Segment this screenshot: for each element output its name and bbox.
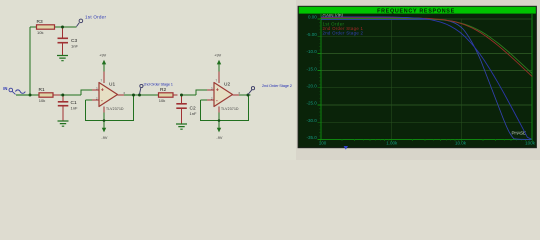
svg-text:1.00k: 1.00k — [386, 141, 398, 146]
svg-text:-: - — [216, 98, 218, 104]
svg-text:-: - — [101, 98, 103, 104]
svg-text:+: + — [216, 88, 219, 94]
svg-text:R3: R3 — [37, 19, 43, 25]
svg-text:-9V: -9V — [101, 136, 107, 140]
svg-text:100: 100 — [319, 141, 327, 146]
svg-text:1nF: 1nF — [71, 105, 78, 110]
svg-text:-20.0: -20.0 — [307, 84, 318, 89]
svg-text:U2: U2 — [224, 81, 230, 87]
svg-text:U1: U1 — [109, 81, 115, 87]
svg-text:100k: 100k — [525, 141, 536, 146]
svg-text:-10.0: -10.0 — [307, 49, 318, 54]
svg-text:+: + — [101, 88, 104, 94]
svg-text:-30.0: -30.0 — [307, 118, 318, 123]
svg-text:+9V: +9V — [214, 54, 221, 58]
svg-text:1nF: 1nF — [71, 44, 78, 49]
svg-text:10k: 10k — [39, 98, 45, 103]
svg-text:-15.0: -15.0 — [307, 66, 318, 71]
svg-text:2nd Order Stage 1: 2nd Order Stage 1 — [144, 81, 174, 86]
svg-text:TLV2371D: TLV2371D — [106, 107, 124, 111]
svg-text:1st Order: 1st Order — [85, 14, 106, 19]
svg-text:-35.0: -35.0 — [307, 135, 318, 140]
svg-text:TLV2371D: TLV2371D — [221, 107, 239, 111]
svg-text:IN: IN — [3, 86, 7, 91]
svg-text:R2: R2 — [160, 87, 166, 93]
svg-text:R1: R1 — [39, 87, 45, 93]
svg-text:FREQUENCY RESPONSE: FREQUENCY RESPONSE — [377, 8, 455, 14]
svg-text:+9V: +9V — [99, 54, 106, 58]
svg-text:2nd Order Stage 2: 2nd Order Stage 2 — [323, 31, 364, 36]
svg-text:-25.0: -25.0 — [307, 101, 318, 106]
svg-text:10.0k: 10.0k — [455, 141, 467, 146]
svg-text:2nd Order Stage 2: 2nd Order Stage 2 — [262, 83, 293, 88]
svg-text:0.00: 0.00 — [308, 15, 317, 20]
svg-text:-9V: -9V — [216, 136, 222, 140]
svg-text:10k: 10k — [159, 98, 165, 103]
svg-text:-5.00: -5.00 — [307, 32, 318, 37]
svg-text:1nF: 1nF — [190, 111, 197, 116]
svg-text:10k: 10k — [37, 30, 43, 35]
